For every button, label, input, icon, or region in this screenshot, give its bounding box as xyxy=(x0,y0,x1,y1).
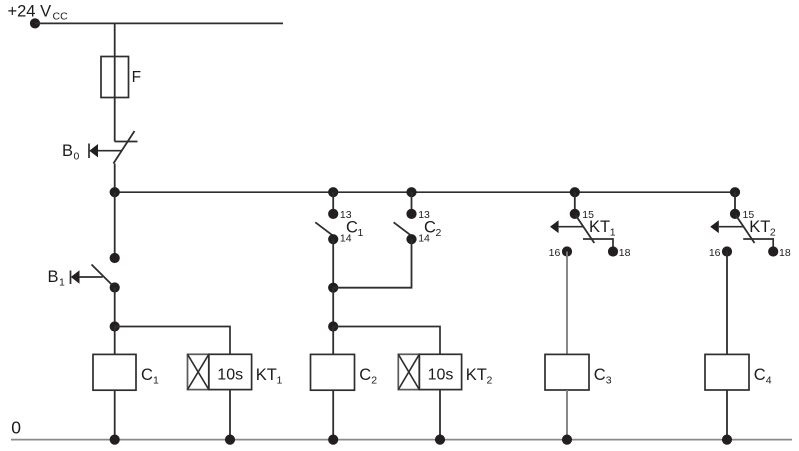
pushbutton B1 (NO contact) xyxy=(48,253,120,293)
timer coil KT1 10s xyxy=(188,354,283,389)
svg-text:C: C xyxy=(594,366,606,384)
wire junction to coil split xyxy=(332,288,334,327)
wire fuse to B0 xyxy=(114,98,116,142)
svg-text:B: B xyxy=(62,142,73,160)
timer coil KT2 10s xyxy=(398,354,492,389)
wire C4 coil to rail xyxy=(726,390,728,440)
node rail junction C1 xyxy=(110,435,120,445)
svg-text:2: 2 xyxy=(770,227,776,239)
wire KT1 contact to C3 coil xyxy=(566,252,568,355)
svg-text:C: C xyxy=(141,366,153,384)
node bus junction left xyxy=(110,187,120,197)
svg-text:KT: KT xyxy=(256,366,277,384)
svg-text:B: B xyxy=(48,268,59,286)
svg-text:KT: KT xyxy=(589,218,610,236)
net 0 label xyxy=(11,418,21,438)
svg-text:+24 V: +24 V xyxy=(8,3,52,21)
svg-text:2: 2 xyxy=(371,375,377,387)
node rail junction KT1 xyxy=(225,435,235,445)
node rail junction C3 xyxy=(562,435,572,445)
svg-text:C: C xyxy=(424,219,436,237)
pushbutton B0 (NC contact) xyxy=(62,131,138,164)
node bus junction C2 branch xyxy=(406,187,416,197)
wire KT2 contact to C4 coil xyxy=(726,252,728,355)
svg-text:18: 18 xyxy=(779,247,791,259)
wire rail to fuse xyxy=(114,23,116,57)
svg-text:1: 1 xyxy=(153,375,159,387)
svg-text:1: 1 xyxy=(358,227,364,239)
timed contact KT1 15-16-18 xyxy=(549,192,631,259)
wire bus to B1 xyxy=(114,192,116,258)
svg-text:2: 2 xyxy=(487,375,493,387)
svg-text:16: 16 xyxy=(709,247,721,259)
svg-text:KT: KT xyxy=(749,218,770,236)
wire C3 coil to rail xyxy=(566,390,568,440)
svg-text:C: C xyxy=(754,366,766,384)
contact C1 13-14 xyxy=(315,192,363,244)
node rail junction KT2 xyxy=(435,435,445,445)
wire junction to KT1 coil xyxy=(115,327,230,355)
wire B0 to bus xyxy=(114,164,116,193)
contact C2 13-14 xyxy=(394,192,442,244)
node rail junction C2 xyxy=(328,435,338,445)
wire C1 coil to rail xyxy=(114,390,116,439)
svg-text:C: C xyxy=(359,366,371,384)
coil C1 xyxy=(93,354,159,390)
svg-text:10s: 10s xyxy=(217,367,243,384)
svg-text:2: 2 xyxy=(436,227,442,239)
node junction middle coil split xyxy=(328,321,338,331)
wire horizontal bus xyxy=(115,191,735,193)
node +24V supply terminal xyxy=(30,18,40,28)
net +24Vcc label xyxy=(8,3,69,23)
wire C2 contact to junction xyxy=(333,239,411,288)
timed contact KT2 15-16-18 xyxy=(709,192,791,259)
svg-text:0: 0 xyxy=(74,151,80,163)
svg-text:C: C xyxy=(346,219,358,237)
wire junction to KT2 coil xyxy=(333,327,440,355)
coil C3 xyxy=(545,354,612,390)
svg-text:10s: 10s xyxy=(428,367,454,384)
svg-text:CC: CC xyxy=(53,11,69,23)
svg-text:4: 4 xyxy=(766,375,772,387)
wire top supply rail xyxy=(35,22,283,24)
wire C1 contact to junction xyxy=(332,239,334,288)
svg-text:1: 1 xyxy=(59,277,65,289)
node bus junction C1 branch xyxy=(328,187,338,197)
coil C4 xyxy=(705,354,772,390)
wire bottom rail 0 xyxy=(11,439,792,441)
wire B1 to junction xyxy=(114,288,116,327)
node bus junction KT2 branch xyxy=(730,187,740,197)
fuse F xyxy=(101,57,141,98)
svg-text:16: 16 xyxy=(549,247,561,259)
wire KT2 coil to rail xyxy=(439,390,441,440)
wire junction to C1 coil xyxy=(114,327,116,355)
svg-text:1: 1 xyxy=(277,375,283,387)
node bus junction KT1 branch xyxy=(570,187,580,197)
svg-text:KT: KT xyxy=(466,366,487,384)
node rail junction C4 xyxy=(722,435,732,445)
wire junction to C2 coil xyxy=(332,327,334,355)
wire C2 coil to rail xyxy=(332,390,334,439)
svg-text:1: 1 xyxy=(610,227,616,239)
node junction left coil split xyxy=(110,321,120,331)
coil C2 xyxy=(311,354,378,390)
svg-text:3: 3 xyxy=(606,375,612,387)
wire KT1 coil to rail xyxy=(229,390,231,440)
svg-text:F: F xyxy=(132,69,141,86)
node junction parallel contacts xyxy=(328,283,338,293)
svg-text:0: 0 xyxy=(11,418,21,438)
svg-text:18: 18 xyxy=(619,247,631,259)
